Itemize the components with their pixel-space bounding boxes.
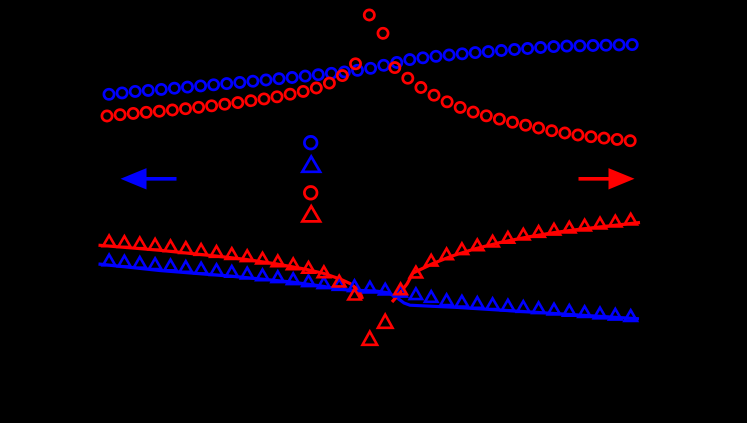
red triangle outlier 1 [362,332,377,345]
red fit line, left branch, through red triangle series [99,245,363,299]
red open-triangle data series (lower resonance branch) [103,214,637,345]
blue left-pointing arrow [121,168,177,189]
red circle outlier 2 [378,28,388,38]
blue open-triangle data series (lower branch) [103,255,637,321]
red right-pointing arrow [579,168,635,189]
blue fit line through blue triangle series [99,264,640,319]
legend marker: red triangle [302,206,320,221]
red open-circle data series (resonance branch with divergence outliers) [102,10,635,146]
legend marker: blue circle [304,136,317,149]
legend marker: blue triangle [302,157,320,172]
blue open-circle data series (upper branch) [104,40,637,100]
red circle outlier 1 [364,10,374,20]
red fit line, right branch, through red triangle series [392,223,640,303]
red triangle outlier 2 [378,315,393,328]
legend marker: red circle [304,187,317,200]
